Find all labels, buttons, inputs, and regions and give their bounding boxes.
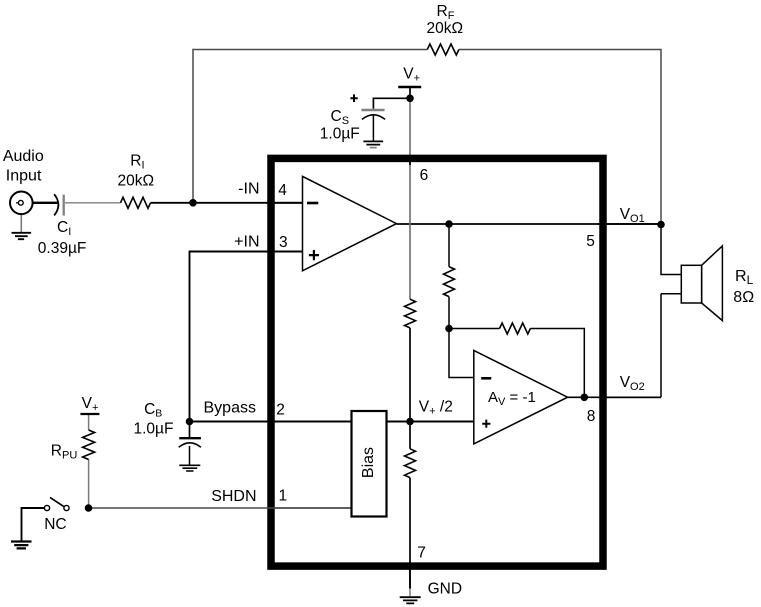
svg-text:7: 7 — [417, 545, 426, 562]
svg-text:0.39µF: 0.39µF — [38, 240, 87, 257]
svg-text:VO2: VO2 — [620, 374, 645, 393]
svg-text:20kΩ: 20kΩ — [427, 20, 464, 37]
svg-text:VO1: VO1 — [620, 206, 645, 225]
svg-text:-IN: -IN — [238, 180, 259, 197]
svg-text:RI: RI — [130, 153, 144, 172]
svg-text:6: 6 — [420, 167, 429, 184]
svg-text:CI: CI — [57, 219, 71, 238]
svg-text:5: 5 — [586, 233, 595, 250]
svg-text:V+ /2: V+ /2 — [419, 399, 453, 418]
svg-text:CS: CS — [331, 108, 350, 127]
svg-text:RPU: RPU — [51, 443, 78, 462]
svg-text:CB: CB — [144, 401, 162, 420]
svg-text:+IN: +IN — [234, 234, 259, 251]
svg-text:2: 2 — [276, 402, 285, 419]
svg-text:1: 1 — [279, 488, 288, 505]
svg-text:V+: V+ — [403, 66, 420, 85]
svg-text:NC: NC — [44, 516, 66, 533]
svg-text:Audio: Audio — [3, 148, 44, 165]
svg-text:Bias: Bias — [360, 447, 377, 478]
svg-text:Input: Input — [6, 168, 42, 185]
svg-text:SHDN: SHDN — [211, 488, 256, 505]
svg-text:V+: V+ — [82, 395, 99, 414]
svg-text:1.0µF: 1.0µF — [134, 421, 174, 438]
svg-text:20kΩ: 20kΩ — [118, 173, 155, 190]
svg-text:GND: GND — [428, 580, 462, 597]
svg-text:8: 8 — [587, 408, 596, 425]
svg-text:8Ω: 8Ω — [733, 289, 754, 306]
svg-text:4: 4 — [278, 182, 287, 199]
svg-text:RL: RL — [735, 268, 754, 287]
svg-text:AV = -1: AV = -1 — [488, 389, 536, 408]
svg-text:1.0µF: 1.0µF — [320, 125, 360, 142]
svg-text:3: 3 — [279, 234, 288, 251]
svg-text:Bypass: Bypass — [204, 400, 256, 417]
